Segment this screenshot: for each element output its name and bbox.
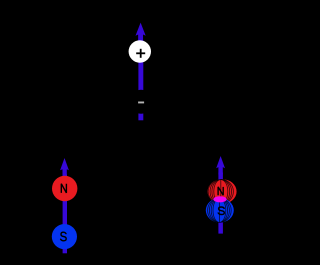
label S — [218, 207, 224, 215]
minus sign — [138, 102, 144, 104]
bar magnet dipole (left) — [52, 158, 78, 253]
sphere north hemisphere (red) — [208, 179, 237, 204]
magnetic moment arrow — [216, 156, 225, 175]
spinning charged sphere (right) — [206, 156, 237, 234]
wire dipole axis — [138, 40, 143, 120]
label N — [61, 184, 66, 193]
south pole S — [52, 224, 77, 249]
plus sign — [136, 52, 145, 54]
magnetic moment arrow m — [60, 158, 69, 177]
meridian lines north — [208, 179, 233, 203]
north pole N — [52, 176, 77, 201]
meridian lines south — [208, 198, 232, 222]
label S — [61, 232, 67, 241]
negative charge (black disc) — [129, 90, 153, 114]
electric dipole (top center) — [129, 23, 154, 121]
positive charge — [129, 40, 151, 62]
sphere south hemisphere (blue) — [206, 198, 234, 223]
wire sphere axis — [218, 173, 223, 234]
dipole moment arrow p — [136, 23, 146, 42]
label N — [218, 187, 223, 195]
wire magnet axis — [63, 175, 67, 254]
overlap lens (magenta) — [213, 196, 226, 202]
